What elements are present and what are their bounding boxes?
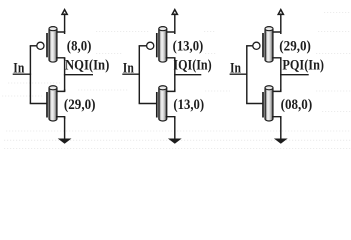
transistor M1P PMOS channel cylinder (circuit 1)	[49, 27, 57, 62]
wire ground shaft (circuit 2)	[174, 117, 176, 140]
wire NMOS gate (circuit 3)	[246, 103, 263, 105]
wire ground shaft (circuit 3)	[280, 117, 282, 140]
wire input In (circuit 2)	[122, 73, 140, 75]
transistor M2P PMOS channel cylinder (circuit 2)	[159, 27, 167, 62]
wire VDD shaft (circuit 3)	[280, 13, 282, 32]
wire PMOS drain stub (circuit 3)	[272, 58, 281, 60]
wire input In (circuit 3)	[230, 73, 248, 75]
wire PMOS source stub (circuit 3)	[272, 32, 281, 34]
svg-text:(29,0): (29,0)	[64, 97, 96, 113]
svg-text:NQI(In): NQI(In)	[65, 58, 109, 74]
transistor M1N NMOS channel cylinder (circuit 1)	[49, 86, 57, 121]
transistor M1P PMOS gate bubble (circuit 1)	[37, 42, 44, 49]
wire gate bus vertical (circuit 2)	[138, 46, 140, 104]
svg-text:PQI(In): PQI(In)	[282, 58, 324, 74]
ground arrow (circuit 2)	[169, 139, 180, 143]
svg-text:(13,0): (13,0)	[173, 38, 204, 54]
wire output node vertical (circuit 1)	[64, 58, 66, 92]
background dotted gridlines	[96, 31, 150, 33]
transistor M3N NMOS channel cylinder (circuit 3)	[265, 86, 273, 121]
ground arrow (circuit 1)	[59, 139, 70, 143]
transistor M1N NMOS gate plate (circuit 1)	[46, 92, 48, 118]
wire NMOS source stub (circuit 3)	[272, 117, 281, 119]
transistor M3P PMOS channel cylinder (circuit 3)	[265, 27, 273, 62]
wire output label stub (circuit 3)	[280, 74, 309, 76]
transistor M3P PMOS gate bubble (circuit 3)	[253, 42, 260, 49]
wire output node vertical (circuit 2)	[174, 58, 176, 92]
svg-text:IQI(In): IQI(In)	[173, 58, 211, 74]
wire NMOS drain stub (circuit 2)	[166, 89, 175, 91]
wire output label stub (circuit 2)	[174, 74, 201, 76]
wire NMOS drain stub (circuit 3)	[272, 89, 281, 91]
wire NMOS source stub (circuit 1)	[56, 117, 65, 119]
transistor M2N NMOS gate plate (circuit 2)	[156, 92, 158, 118]
wire PMOS drain stub (circuit 2)	[166, 58, 175, 60]
ground arrow (circuit 3)	[275, 139, 286, 143]
wire VDD shaft (circuit 1)	[64, 13, 66, 32]
node VDD arrow (circuit 1)	[62, 10, 67, 15]
transistor M3N NMOS gate plate (circuit 3)	[262, 92, 264, 118]
figure: three CMOS inverter schematics	[0, 0, 351, 168]
wire gate bus vertical (circuit 1)	[29, 46, 31, 104]
wire PMOS source stub (circuit 1)	[56, 32, 65, 34]
svg-text:(8,0): (8,0)	[67, 38, 92, 54]
wire PMOS source stub (circuit 2)	[166, 32, 175, 34]
svg-text:(29,0): (29,0)	[279, 38, 311, 54]
wire NMOS drain stub (circuit 1)	[56, 89, 65, 91]
svg-text:In: In	[13, 60, 24, 76]
wire output label stub (circuit 1)	[64, 74, 93, 76]
svg-text:(08,0): (08,0)	[281, 97, 313, 113]
wire bubble to gate bus (circuit 1)	[30, 45, 37, 47]
wire NMOS gate (circuit 2)	[139, 103, 157, 105]
svg-text:(13,0): (13,0)	[173, 97, 204, 113]
wire bubble to gate bus (circuit 2)	[139, 45, 147, 47]
svg-text:In: In	[123, 60, 134, 76]
transistor M3P PMOS gate plate (circuit 3)	[262, 33, 264, 57]
wire NMOS source stub (circuit 2)	[166, 117, 175, 119]
wire bubble to gate bus (circuit 3)	[246, 45, 253, 47]
wire NMOS gate (circuit 1)	[30, 103, 47, 105]
transistor M2P PMOS gate bubble (circuit 2)	[147, 42, 154, 49]
node VDD arrow (circuit 3)	[278, 10, 283, 15]
svg-text:In: In	[230, 60, 241, 76]
wire input In (circuit 1)	[13, 73, 31, 75]
wire PMOS drain stub (circuit 1)	[56, 58, 65, 60]
wire gate bus vertical (circuit 3)	[246, 46, 248, 104]
node VDD arrow (circuit 2)	[172, 10, 177, 15]
transistor M2N NMOS channel cylinder (circuit 2)	[159, 86, 167, 121]
transistor M2P PMOS gate plate (circuit 2)	[156, 33, 158, 57]
wire VDD shaft (circuit 2)	[174, 13, 176, 32]
wire ground shaft (circuit 1)	[64, 117, 66, 140]
wire output node vertical (circuit 3)	[280, 58, 282, 92]
transistor M1P PMOS gate plate (circuit 1)	[46, 33, 48, 57]
